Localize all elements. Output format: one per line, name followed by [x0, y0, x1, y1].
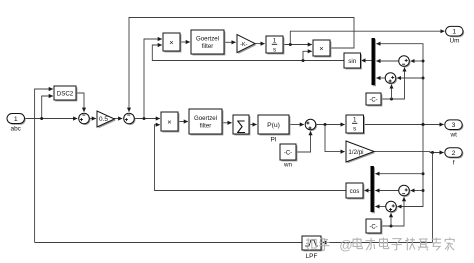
svg-text:s: s: [353, 125, 356, 132]
svg-text:-C-: -C-: [369, 97, 377, 103]
svg-text:1/2/pi: 1/2/pi: [348, 149, 363, 156]
svg-text:PI: PI: [270, 137, 276, 144]
svg-text:LPF: LPF: [306, 253, 318, 260]
svg-text:f: f: [453, 159, 455, 166]
svg-text:×: ×: [169, 38, 173, 47]
svg-text:Goertzel: Goertzel: [196, 36, 219, 43]
svg-text:3: 3: [452, 122, 456, 129]
svg-text:filter: filter: [200, 122, 212, 129]
svg-text:filter: filter: [202, 43, 214, 50]
svg-text:wn: wn: [283, 162, 292, 169]
svg-text:abc: abc: [11, 126, 22, 133]
svg-text:×: ×: [319, 44, 323, 53]
svg-text:wt: wt: [449, 131, 457, 138]
svg-text:Um: Um: [450, 38, 460, 45]
svg-text:1: 1: [452, 29, 456, 36]
svg-text:×: ×: [167, 117, 171, 126]
svg-text:-C-: -C-: [284, 151, 292, 157]
svg-text:2: 2: [452, 150, 456, 157]
svg-text:1: 1: [353, 117, 357, 124]
svg-text:@: @: [339, 237, 352, 252]
svg-text:DSC2: DSC2: [57, 90, 74, 97]
svg-text:P(u): P(u): [267, 122, 280, 129]
svg-text:cos: cos: [350, 188, 360, 195]
svg-text:sin: sin: [348, 58, 356, 65]
svg-text:1: 1: [14, 116, 18, 123]
svg-text:∑: ∑: [236, 117, 246, 133]
svg-text:Goertzel: Goertzel: [194, 115, 217, 122]
svg-text:s: s: [273, 46, 276, 53]
svg-text:-C-: -C-: [369, 224, 377, 230]
svg-text:1: 1: [273, 38, 277, 45]
svg-text:-K-: -K-: [240, 42, 248, 48]
svg-text:0.5: 0.5: [99, 116, 108, 123]
